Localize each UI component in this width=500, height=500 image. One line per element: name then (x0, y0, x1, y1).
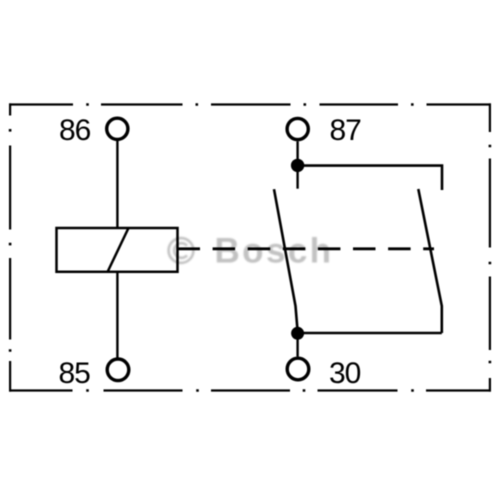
terminal 30 circle (287, 358, 309, 380)
relay housing outline: top border (dash-dot) (9, 103, 491, 105)
watermark copyright symbol (169, 238, 194, 263)
left contact blade (274, 189, 298, 330)
right contact blade (418, 189, 442, 333)
wire top bar from 87 junction to right fixed contact (298, 166, 442, 190)
svg-text:30: 30 (329, 357, 361, 390)
svg-text:Bosch: Bosch (215, 232, 334, 271)
relay housing outline: right border (dash-dot) (489, 103, 491, 391)
wire bottom bar from 30 junction to right blade (298, 332, 442, 335)
mechanical linkage (dashed) (178, 247, 435, 250)
svg-text:86: 86 (59, 114, 91, 147)
wire 86 to coil (116, 141, 118, 229)
wire coil to 85 (116, 271, 118, 358)
wire 30 junction to terminal (296, 333, 298, 357)
junction node at 87 (291, 159, 304, 172)
terminal 86 circle (107, 118, 128, 139)
relay housing outline: bottom border (dash-dot) (9, 389, 491, 391)
svg-text:87: 87 (330, 114, 362, 147)
relay housing outline: left border (dash-dot) (9, 103, 11, 391)
terminal 87 circle (287, 118, 308, 139)
coil diagonal stroke (108, 228, 129, 272)
wire 87 to junction and fixed contact stub (296, 141, 298, 189)
terminal 85 circle (107, 359, 129, 381)
relay coil K1 (57, 228, 178, 272)
junction node at 30 (291, 327, 304, 340)
svg-text:85: 85 (59, 357, 91, 390)
